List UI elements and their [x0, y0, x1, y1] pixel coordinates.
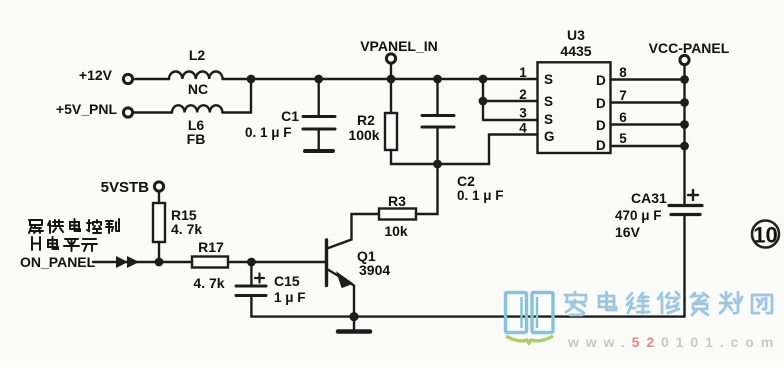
capacitor C2 [433, 75, 442, 84]
node base/C15 [247, 258, 256, 267]
svg-text:+5V_PNL: +5V_PNL [56, 101, 118, 117]
svg-text:5: 5 [619, 131, 627, 146]
wire pin7 [611, 101, 685, 103]
watermark green underline [506, 336, 553, 343]
svg-text:C15: C15 [274, 273, 300, 289]
wire pin5 [611, 145, 685, 147]
transistor Q2: Q1 3904 [325, 240, 328, 286]
node R15/ON_PANEL [155, 258, 164, 267]
svg-text:0. 1 μ F: 0. 1 μ F [245, 125, 292, 140]
wire [390, 64, 392, 80]
svg-text:D: D [596, 138, 606, 153]
watermark book icon [506, 293, 554, 333]
wire [391, 163, 438, 165]
resistor R2 [390, 79, 392, 113]
inductor L2 [169, 72, 223, 80]
svg-text:+12V: +12V [79, 67, 113, 83]
svg-text:4. 7k: 4. 7k [171, 221, 202, 237]
svg-text:R2: R2 [357, 112, 375, 128]
wire VCC rail [683, 65, 685, 204]
wire ground rail [251, 315, 684, 317]
svg-text:C1: C1 [281, 108, 299, 124]
capacitor CA31 [669, 204, 702, 207]
node junction L2/L6 [247, 75, 256, 84]
wire pins 1-2-3 tie [483, 79, 538, 120]
wire gate to pin4 [438, 135, 538, 165]
svg-text:www.520101.com: www.520101.com [567, 334, 780, 350]
ground (C1) [305, 149, 333, 153]
svg-text:5VSTB: 5VSTB [101, 179, 150, 196]
svg-text:3: 3 [519, 106, 527, 121]
svg-text:VPANEL_IN: VPANEL_IN [360, 38, 438, 54]
plus sign CA31 [688, 190, 698, 200]
svg-text:4435: 4435 [560, 43, 591, 59]
svg-text:FB: FB [187, 131, 206, 147]
terminal +5V_PNL [123, 108, 132, 117]
label Chinese: 屏供电控制 (panel power control) [29, 219, 119, 233]
svg-text:7: 7 [619, 88, 627, 103]
svg-text:C2: C2 [457, 173, 475, 189]
resistor R17 [192, 257, 228, 268]
wire [133, 111, 172, 113]
svg-text:U3: U3 [567, 27, 585, 43]
wire ON_PANEL [93, 261, 192, 263]
arrow signal direction [116, 256, 139, 268]
terminal 5VSTB [154, 182, 163, 191]
resistor R15 [158, 192, 160, 204]
svg-text:4. 7k: 4. 7k [193, 275, 224, 291]
node pin5 [680, 142, 689, 151]
svg-text:6: 6 [619, 110, 627, 125]
svg-text:G: G [544, 129, 555, 144]
node emitter/ground [349, 312, 358, 321]
terminal +12V [123, 74, 132, 83]
svg-text:R3: R3 [388, 193, 406, 209]
svg-text:10k: 10k [384, 223, 408, 239]
watermark url www.520101.com [567, 334, 780, 350]
capacitor C15 [250, 262, 252, 285]
svg-text:R17: R17 [198, 239, 224, 255]
terminal VPANEL_IN [386, 54, 395, 63]
node pin6 [680, 120, 689, 129]
svg-text:16V: 16V [615, 224, 641, 240]
svg-text:S: S [544, 72, 553, 87]
resistor R3 [352, 213, 380, 215]
svg-text:ON_PANEL: ON_PANEL [20, 254, 96, 270]
svg-text:D: D [596, 73, 606, 88]
capacitor C1 [314, 75, 323, 84]
svg-text:VCC-PANEL: VCC-PANEL [649, 40, 730, 56]
wire [223, 79, 252, 113]
svg-text:CA31: CA31 [631, 190, 667, 206]
node pin2 junction [479, 97, 488, 106]
svg-text:S: S [544, 94, 553, 109]
op-amp U1: MOSFET IC U3 4435 [538, 62, 611, 153]
terminal VCC-PANEL [680, 55, 689, 64]
node VPANEL on rail [387, 75, 396, 84]
wire [133, 78, 169, 80]
svg-text:470 μ F: 470 μ F [615, 208, 662, 223]
watermark Chinese: 家电维修资料网 [565, 292, 772, 315]
svg-text:2: 2 [519, 87, 527, 102]
node pin1 junction [479, 75, 488, 84]
ground (Q1 emitter) [353, 317, 355, 330]
svg-text:3904: 3904 [359, 262, 390, 278]
svg-text:S: S [544, 112, 553, 127]
node pin7 [680, 98, 689, 107]
svg-text:1: 1 [519, 65, 527, 80]
wire [223, 78, 538, 80]
svg-text:D: D [596, 118, 606, 133]
svg-text:NC: NC [188, 81, 208, 97]
plus sign C15 [255, 274, 264, 283]
svg-text:1 μ F: 1 μ F [274, 290, 306, 305]
svg-text:100k: 100k [348, 127, 379, 143]
node pin8 [680, 75, 689, 84]
svg-text:0. 1 μ F: 0. 1 μ F [457, 188, 504, 203]
wire pin8 [611, 78, 685, 80]
svg-text:D: D [596, 96, 606, 111]
node gate junction [433, 160, 442, 169]
wire pin6 [611, 123, 685, 125]
svg-text:10: 10 [753, 223, 777, 248]
svg-text:L2: L2 [189, 47, 206, 63]
svg-text:8: 8 [619, 65, 627, 80]
svg-text:4: 4 [519, 121, 527, 136]
circled figure number 10 [752, 221, 779, 248]
inductor L6 [172, 105, 222, 112]
label Chinese: H电平开 (H level on) [32, 237, 97, 251]
